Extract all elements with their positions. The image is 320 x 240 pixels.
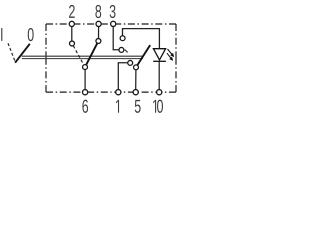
label 5 — [135, 100, 141, 113]
coupler bar double line — [22, 56, 143, 58]
wire terminal 3 to contact — [113, 26, 119, 49]
label I — [1, 28, 2, 41]
actuator lever solid position 0 — [15, 44, 30, 63]
LED emission arrow 2 — [167, 53, 172, 60]
wire lamp contact to LED anode — [123, 29, 160, 49]
label 1 — [116, 100, 119, 113]
pole 2 pivot — [134, 65, 139, 70]
LED emission arrow 1 — [168, 49, 174, 56]
label 6 — [82, 100, 88, 113]
actuator lever dashed position I — [8, 43, 15, 62]
label 10 — [153, 100, 156, 113]
label 8 — [95, 5, 101, 18]
wire terminal 1 to contact — [118, 63, 127, 90]
LED D1 triangle — [153, 49, 165, 60]
wire terminal 6 stem — [84, 70, 86, 90]
pole 1 lever dashed alternate — [73, 46, 84, 65]
LED D1 cathode bar — [153, 60, 166, 62]
contact of terminal 8 — [96, 39, 101, 44]
wire terminal 5 stem — [135, 70, 137, 90]
wire terminal 8 stem — [98, 26, 100, 38]
pole 1 lever solid — [86, 43, 97, 65]
wire terminal 2 stem — [71, 26, 73, 41]
switch enclosure dash-dot border — [46, 24, 176, 92]
terminal 6 — [83, 90, 88, 95]
pole 2 lever dashed alternate tick — [125, 50, 128, 53]
terminal 10 — [157, 90, 162, 95]
pole 2 lever solid — [137, 45, 150, 65]
contact of terminal 1 — [128, 60, 133, 65]
terminal 8 — [96, 21, 101, 26]
pole 1 pivot — [83, 65, 88, 70]
lamp feed contact — [120, 36, 125, 41]
label 2 — [69, 5, 75, 18]
label 3 — [110, 5, 116, 18]
wire terminal 10 stem — [158, 62, 160, 90]
contact of terminal 2 — [70, 41, 75, 46]
contact of terminal 3 — [119, 47, 124, 52]
terminal 3 — [111, 21, 116, 26]
terminal 1 — [116, 90, 121, 95]
terminal 2 — [69, 21, 74, 26]
label 0 — [28, 28, 34, 41]
terminal 5 — [133, 90, 138, 95]
